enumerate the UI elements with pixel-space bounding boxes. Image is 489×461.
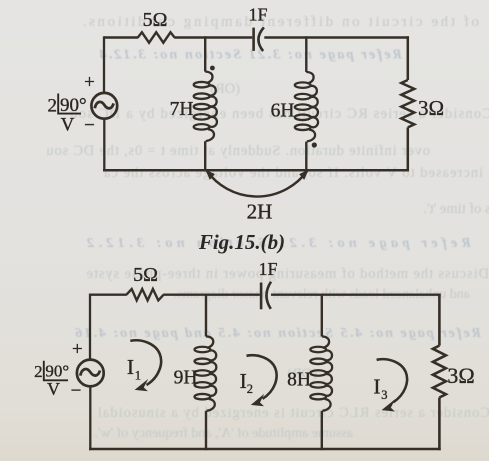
resistor R 5ohm (bottom circuit) bbox=[126, 289, 163, 300]
inductor L 6H bbox=[295, 72, 318, 142]
mesh current arrow I2 bbox=[247, 355, 277, 399]
wire right lower (top circuit) bbox=[407, 127, 410, 171]
coupling dot of 6H bbox=[312, 142, 317, 147]
wire branch 8H lower (bottom circuit) bbox=[321, 411, 323, 450]
wire branch 7H lower (top circuit) bbox=[204, 141, 206, 171]
svg-text:2: 2 bbox=[247, 382, 253, 396]
capacitor C 1F (top circuit) left plate bbox=[252, 28, 255, 51]
svg-text:−: − bbox=[71, 381, 82, 402]
svg-text:assume amplitude of 'A', and f: assume amplitude of 'A', and frequency o… bbox=[94, 426, 353, 441]
capacitor C 1F (bottom circuit) left plate bbox=[260, 283, 263, 310]
svg-text:2: 2 bbox=[48, 95, 58, 116]
wire top-left horizontal (top circuit) bbox=[104, 36, 138, 38]
wire branch 7H upper (top circuit) bbox=[204, 36, 206, 71]
svg-text:−: − bbox=[84, 115, 95, 136]
coupling dot of 7H bbox=[210, 66, 215, 71]
resistor R 3ohm (bottom circuit) bbox=[433, 346, 446, 398]
wire branch 6H lower (top circuit) bbox=[305, 142, 307, 172]
wire left upper (top circuit) bbox=[103, 36, 105, 93]
mutual inductance 2H arc bbox=[207, 171, 308, 197]
svg-text:Fig.15.(b): Fig.15.(b) bbox=[198, 230, 285, 254]
mesh current arrow I1 bbox=[130, 340, 161, 385]
wire branch 8H upper (bottom circuit) bbox=[321, 294, 323, 337]
wire right upper (top circuit) bbox=[407, 36, 410, 80]
wire branch 6H upper (top circuit) bbox=[305, 36, 307, 72]
capacitor C 1F (bottom circuit) curved plate bbox=[266, 282, 271, 309]
source value label (top): 2 angle 90 deg V bbox=[48, 94, 87, 136]
inductor L 7H bbox=[194, 72, 217, 142]
svg-text:1F: 1F bbox=[258, 259, 277, 279]
wire left lower (bottom circuit) bbox=[89, 387, 91, 451]
svg-text:1: 1 bbox=[135, 369, 141, 383]
wire right lower (bottom circuit) bbox=[438, 398, 441, 451]
svg-text:6H: 6H bbox=[271, 100, 295, 121]
wire top right horizontal (bottom circuit) bbox=[271, 294, 441, 296]
svg-text:values of time 't'.: values of time 't'. bbox=[423, 201, 489, 217]
resistor R 5ohm (top circuit) bbox=[138, 32, 175, 42]
wire branch 9H upper (bottom circuit) bbox=[205, 294, 207, 337]
2H arc right arrowhead bbox=[299, 170, 309, 180]
svg-text:+: + bbox=[84, 72, 95, 93]
svg-text:90°: 90° bbox=[45, 362, 69, 381]
wire right upper (bottom circuit) bbox=[438, 294, 441, 346]
svg-text:2H: 2H bbox=[247, 200, 273, 224]
svg-text:1F: 1F bbox=[248, 5, 267, 25]
wire branch 9H lower (bottom circuit) bbox=[205, 411, 207, 450]
wire top middle (bottom circuit) bbox=[163, 294, 260, 296]
svg-text:3Ω: 3Ω bbox=[418, 96, 444, 120]
svg-text:Consider a series RLC circuit: Consider a series RLC circuit is energiz… bbox=[97, 405, 489, 421]
svg-text:5Ω: 5Ω bbox=[133, 264, 158, 286]
svg-text:V: V bbox=[61, 115, 75, 136]
ac source V1 2/90 V (top circuit) bbox=[91, 93, 117, 119]
svg-text:V: V bbox=[47, 379, 60, 399]
svg-text:90°: 90° bbox=[60, 95, 87, 116]
source value label (bottom): 2 angle 90 deg V bbox=[34, 361, 69, 399]
svg-text:of the circuit on different da: of the circuit on different damping cond… bbox=[80, 14, 479, 30]
wire bottom (bottom circuit) bbox=[89, 448, 441, 451]
mesh current arrow I3 bbox=[377, 359, 407, 402]
svg-text:9H: 9H bbox=[174, 368, 198, 389]
svg-text:5Ω: 5Ω bbox=[143, 9, 168, 31]
svg-text:7H: 7H bbox=[170, 99, 194, 120]
capacitor C 1F (top circuit) curved plate bbox=[258, 27, 263, 51]
svg-text:8H: 8H bbox=[287, 370, 311, 391]
svg-text:3: 3 bbox=[381, 388, 387, 402]
wire top-left horizontal (bottom circuit) bbox=[90, 294, 127, 296]
wire left upper (bottom circuit) bbox=[89, 294, 91, 360]
svg-text:I: I bbox=[373, 375, 380, 399]
resistor R 3ohm (top circuit) bbox=[401, 80, 414, 127]
wire bottom (top circuit) bbox=[103, 169, 409, 172]
inductor L 9H bbox=[195, 336, 217, 411]
svg-text:I: I bbox=[127, 355, 134, 379]
wire left lower (top circuit) bbox=[103, 119, 105, 172]
svg-text:increased to V volts. If so, a: increased to V volts. If so, and the vol… bbox=[103, 165, 483, 181]
svg-text:Refer page no: 3.21 Section no: Refer page no: 3.21 Section no: 3.12.4 bbox=[97, 48, 403, 63]
svg-text:+: + bbox=[72, 339, 83, 360]
wire top middle (top circuit) bbox=[174, 36, 252, 38]
svg-text:3Ω: 3Ω bbox=[447, 363, 474, 388]
2H arc left arrowhead bbox=[205, 170, 215, 180]
svg-text:Refer page no: 4.5 Section no:: Refer page no: 4.5 Section no: 4.5 and p… bbox=[73, 326, 482, 341]
svg-text:2: 2 bbox=[34, 362, 43, 381]
svg-text:I: I bbox=[240, 369, 247, 393]
ac source V2 2/90 V (bottom circuit) bbox=[77, 360, 104, 387]
inductor L 8H bbox=[310, 336, 332, 411]
wire top right horizontal (top circuit) bbox=[264, 36, 409, 38]
